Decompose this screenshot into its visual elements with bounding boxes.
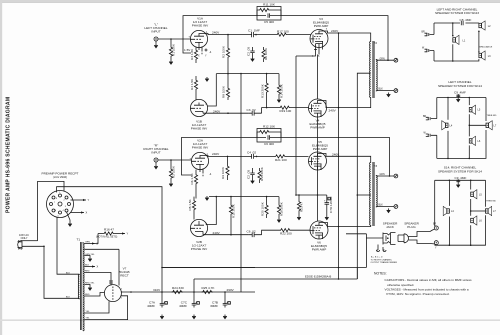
wire plug to terminal BR bbox=[412, 229, 434, 236]
svg-text:R10 200K: R10 200K bbox=[232, 203, 236, 218]
resistor R14 200K bbox=[277, 74, 283, 98]
svg-text:BLK: BLK bbox=[379, 205, 384, 207]
cap C2b .05 to ground bbox=[247, 168, 255, 179]
svg-text:GRN: GRN bbox=[380, 58, 385, 60]
svg-text:240V: 240V bbox=[212, 31, 220, 35]
box3 input terminal bottom bbox=[434, 241, 438, 250]
speaker L3 bbox=[478, 51, 491, 60]
wire R21 to V5 grid bbox=[286, 155, 309, 157]
svg-text:RED: RED bbox=[85, 294, 90, 296]
svg-text:A + B C + D: A + B C + D bbox=[371, 256, 383, 259]
bottom interconnect wires bbox=[162, 268, 357, 280]
node on V4 grid wire bbox=[266, 107, 268, 109]
svg-text:SPEAKER SYSTEM FOR SK14: SPEAKER SYSTEM FOR SK14 bbox=[438, 84, 482, 88]
notes text block bbox=[385, 278, 473, 296]
resistor R5 1.5K above V2B bbox=[188, 197, 196, 220]
V2A heater pins bbox=[200, 169, 212, 176]
svg-text:otherwise specified.: otherwise specified. bbox=[387, 283, 414, 287]
wire plug to terminal Y bbox=[412, 240, 434, 244]
wire V6 plate to T3 bottom bbox=[326, 223, 371, 227]
treble text box3 bbox=[486, 201, 496, 203]
B+ rail A y267.5 bbox=[162, 267, 339, 269]
tube V1A label bbox=[192, 17, 209, 28]
svg-text:BR: BR bbox=[423, 116, 427, 118]
T2 output terminal bottom bbox=[394, 89, 398, 93]
node on V1B out bbox=[227, 112, 229, 114]
T3 center tap to B+ bbox=[357, 194, 370, 196]
tube V1A bbox=[189, 30, 209, 47]
wire terminal top to box3 bbox=[435, 225, 437, 227]
svg-text:(HOT IN ALL SETS): (HOT IN ALL SETS) bbox=[96, 235, 117, 238]
svg-text:240V: 240V bbox=[331, 29, 339, 33]
wire right input to V2A grid bbox=[158, 159, 192, 161]
svg-text:R25 4.7K: R25 4.7K bbox=[202, 286, 216, 290]
tube V3 pentode bbox=[310, 28, 328, 47]
speaker L7b bbox=[486, 206, 497, 215]
page left gray band bbox=[0, 0, 2, 335]
capacitor C4 .02 coupling bbox=[247, 150, 257, 158]
svg-text:C4 .02: C4 .02 bbox=[247, 150, 256, 154]
speaker L4b bbox=[443, 206, 454, 215]
AC plug label bbox=[19, 233, 29, 240]
speaker L1 bbox=[452, 35, 466, 45]
ground below C10 bbox=[456, 183, 460, 187]
speaker L2 bbox=[478, 21, 491, 32]
screen node on V4 plate wire bbox=[338, 107, 340, 109]
T1 ground tap 1 bbox=[85, 254, 96, 261]
wire terminal bottom to box3 bbox=[435, 244, 437, 246]
svg-text:R1 100K: R1 100K bbox=[172, 43, 176, 56]
feedback network box R12 10K C6 bbox=[257, 125, 281, 147]
plate supply vertical x292.4 bbox=[295, 56, 297, 195]
speaker plug symbol bbox=[398, 234, 412, 243]
wire V1B cathode out bbox=[203, 112, 249, 114]
wire V1A plate to node bbox=[207, 34, 250, 35]
svg-text:R15 200K: R15 200K bbox=[260, 166, 264, 181]
svg-text:R11 10K: R11 10K bbox=[263, 3, 276, 7]
right channel input label bbox=[143, 144, 168, 155]
bias rail y195 bbox=[296, 194, 327, 196]
grid resistor R9 100K bbox=[221, 156, 229, 180]
node T2 secondary/feedback bbox=[387, 59, 389, 61]
bus wire y73.6 bbox=[216, 73, 279, 75]
V7 filament return wires bbox=[85, 296, 128, 320]
ground below R23 bbox=[297, 216, 301, 220]
svg-text:VOLTAGES - Measured from point: VOLTAGES - Measured from point indicated… bbox=[385, 287, 469, 291]
bypass cap C7D 120MF bbox=[324, 195, 333, 216]
to other channel text bbox=[371, 256, 398, 265]
svg-text:PHASE INV: PHASE INV bbox=[191, 247, 208, 251]
resistor R15 200K bbox=[258, 166, 264, 183]
svg-text:EDGE 61D84298A-B: EDGE 61D84298A-B bbox=[305, 275, 331, 279]
tube V5 label bbox=[312, 140, 328, 151]
svg-text:(LUG VIEW): (LUG VIEW) bbox=[53, 176, 67, 179]
T2 output terminal top bbox=[394, 58, 398, 62]
resistor R8 100K grid V1B bbox=[222, 74, 230, 100]
svg-text:R17 100: R17 100 bbox=[277, 30, 289, 34]
svg-text:PLUG: PLUG bbox=[407, 225, 416, 229]
tube V5 pentode bbox=[309, 152, 327, 170]
svg-text:R6 1.8K: R6 1.8K bbox=[190, 172, 194, 184]
capacitor C1 .1MF coupling bbox=[248, 29, 260, 38]
svg-text:BLK: BLK bbox=[379, 89, 384, 91]
plug wire bottom prong bbox=[22, 245, 44, 247]
speaker system 2 title bbox=[438, 80, 482, 88]
node T3 secondary/feedback bbox=[389, 175, 391, 177]
svg-text:C7D 120MF: C7D 120MF bbox=[329, 196, 333, 213]
rectifier V7 label bbox=[119, 267, 129, 278]
resistor R20 100K bbox=[261, 197, 269, 218]
svg-text:C2 .05: C2 .05 bbox=[247, 170, 251, 179]
svg-text:SPEAKER SYSTEM FOR SK23: SPEAKER SYSTEM FOR SK23 bbox=[435, 11, 479, 15]
svg-text:R23 47: R23 47 bbox=[300, 202, 304, 212]
svg-text:C1 .1MF: C1 .1MF bbox=[248, 29, 260, 33]
svg-text:R22 100: R22 100 bbox=[280, 232, 292, 236]
T1 tap 2 arrow bbox=[85, 242, 99, 246]
wire x98 down from R16 bbox=[95, 234, 98, 244]
speaker box 3 wiring bbox=[435, 180, 486, 245]
speaker L6b bbox=[471, 216, 483, 225]
svg-text:40MF: 40MF bbox=[147, 304, 155, 308]
svg-text:BRILLIANCE: BRILLIANCE bbox=[480, 46, 493, 49]
tube V1B label bbox=[191, 120, 208, 131]
svg-text:INPUT: INPUT bbox=[151, 151, 160, 155]
svg-text:R4 1.5K: R4 1.5K bbox=[190, 78, 194, 90]
svg-text:240V: 240V bbox=[213, 231, 221, 235]
svg-text:R16 47: R16 47 bbox=[104, 228, 114, 232]
tube V2A label bbox=[192, 139, 209, 150]
T1 bottom taps YEL bbox=[86, 311, 91, 320]
wire R22 to V6 grid bbox=[291, 229, 310, 231]
cap C10 4MF bbox=[455, 176, 467, 183]
svg-text:40MF: 40MF bbox=[179, 304, 187, 308]
tube V2B label bbox=[191, 240, 208, 251]
svg-text:C9 .4MF: C9 .4MF bbox=[454, 90, 466, 94]
wire C3 up to grid wire bbox=[262, 108, 279, 114]
svg-text:PWR AMP: PWR AMP bbox=[313, 147, 328, 151]
resistor R22 100 bbox=[280, 229, 292, 236]
power transformer T1 bbox=[77, 238, 85, 332]
node on V2B out bbox=[230, 234, 232, 236]
ground at T2 secondary bbox=[387, 93, 391, 97]
box3 input terminal top bbox=[433, 224, 438, 230]
svg-text:TREB MD: TREB MD bbox=[487, 115, 497, 117]
plug wire top prong bbox=[22, 240, 38, 242]
speaker system 3 title bbox=[438, 166, 482, 174]
feedback wire top left channel bbox=[183, 16, 257, 53]
wire C6b up to V6 grid wire bbox=[262, 230, 280, 235]
tube V6 label bbox=[311, 241, 327, 252]
svg-text:C6 400: C6 400 bbox=[264, 142, 274, 146]
svg-text:BLK: BLK bbox=[66, 273, 71, 275]
svg-text:310V: 310V bbox=[153, 288, 161, 292]
svg-text:240V: 240V bbox=[329, 109, 337, 113]
svg-text:PHASE INV: PHASE INV bbox=[192, 146, 209, 150]
preamp power receptacle label bbox=[42, 172, 79, 179]
R16 47 resistor to Y bbox=[96, 228, 129, 239]
node at C1 output bbox=[255, 34, 257, 36]
svg-text:C3 .02: C3 .02 bbox=[247, 108, 256, 112]
svg-text:R13 200K: R13 200K bbox=[261, 83, 265, 98]
ground arrow near V2A cathode bbox=[205, 196, 209, 200]
svg-text:240V: 240V bbox=[213, 109, 221, 113]
resistor R2 100K right input bbox=[169, 160, 175, 182]
svg-text:SPEAKER SYSTEM FOR SK14: SPEAKER SYSTEM FOR SK14 bbox=[438, 169, 482, 173]
svg-text:BR: BR bbox=[422, 32, 426, 34]
node dots on y73.6 bbox=[227, 73, 267, 75]
svg-text:INPUT: INPUT bbox=[151, 30, 160, 34]
resistor R17 100 bbox=[276, 30, 289, 37]
speaker box 2 wiring bbox=[437, 98, 486, 159]
svg-text:X: X bbox=[97, 265, 99, 269]
svg-text:BLK: BLK bbox=[66, 297, 71, 299]
svg-text:BR: BR bbox=[433, 224, 437, 226]
speaker box 1 wiring bbox=[434, 23, 479, 61]
svg-text:R20 100K: R20 100K bbox=[261, 201, 265, 216]
svg-text:GRN-YEL: GRN-YEL bbox=[85, 254, 96, 256]
ground from socket bbox=[67, 212, 72, 226]
input plug P4 box2 bbox=[424, 133, 437, 137]
wire x194 up to rail B bbox=[193, 279, 195, 292]
jack ground lead bbox=[339, 234, 387, 268]
speaker L5 bbox=[469, 105, 481, 114]
svg-text:Y: Y bbox=[127, 232, 129, 236]
wire C1 to R17 bbox=[256, 34, 276, 36]
filter cap C7A 40MF bbox=[147, 292, 167, 319]
node junction at R1 top bbox=[170, 38, 172, 40]
output transformer T2 bbox=[370, 41, 378, 98]
socket wire to top left bbox=[38, 181, 64, 240]
speaker system 1 title bbox=[435, 7, 479, 15]
svg-text:C5 400: C5 400 bbox=[264, 20, 274, 24]
svg-text:RED-YEL: RED-YEL bbox=[85, 283, 95, 285]
svg-text:PHASE INV: PHASE INV bbox=[192, 24, 209, 28]
wire node to L7 bbox=[469, 124, 486, 126]
socket wire to B plus rail bbox=[57, 187, 162, 268]
svg-text:JACK: JACK bbox=[386, 225, 395, 229]
wire V5 plate to T3 top bbox=[325, 154, 371, 163]
wire node to L7b bbox=[471, 210, 486, 212]
svg-text:RED: RED bbox=[85, 271, 90, 273]
right input jack J2 bbox=[154, 158, 158, 165]
ground below C7D bbox=[325, 216, 329, 220]
speaker jack label bbox=[383, 222, 398, 229]
cap C2 .05 to ground bbox=[247, 47, 255, 57]
svg-text:POWER AMP HS-696 SCHEMATIC DIA: POWER AMP HS-696 SCHEMATIC DIAGRAM bbox=[6, 97, 12, 213]
svg-text:R16 200K: R16 200K bbox=[280, 201, 284, 216]
T3 secondary top lead bbox=[376, 175, 394, 177]
rectifier tube V7 bbox=[104, 280, 122, 302]
screen node on V5 plate wire bbox=[338, 156, 340, 158]
T1 tap X arrow bbox=[85, 265, 99, 269]
ground below C2 bbox=[251, 57, 255, 61]
svg-text:TO RIGHT CHANNEL: TO RIGHT CHANNEL bbox=[371, 259, 393, 262]
preamp power receptacle socket bbox=[47, 191, 74, 218]
speaker L6 bbox=[469, 136, 481, 145]
tube V4 label bbox=[310, 119, 326, 130]
svg-text:290V: 290V bbox=[227, 288, 235, 292]
node at C4 output bbox=[256, 156, 258, 158]
svg-text:R3 1.8K: R3 1.8K bbox=[190, 48, 194, 60]
node B+ x225 bbox=[224, 291, 226, 293]
T1 primary labels bbox=[66, 273, 71, 299]
svg-text:R21 100: R21 100 bbox=[275, 158, 287, 162]
tube V6 pentode bbox=[310, 221, 328, 239]
grid resistor R2 100K bbox=[222, 35, 230, 74]
svg-text:R2 100K: R2 100K bbox=[222, 45, 226, 58]
input plug P3 box2 bbox=[423, 116, 437, 120]
input plug P2 box1 bbox=[422, 48, 434, 52]
svg-text:C9 .4MF: C9 .4MF bbox=[455, 176, 467, 180]
node dots box3 bbox=[449, 180, 472, 247]
wire x44 down to T1 bbox=[44, 246, 79, 298]
svg-text:R19 100: R19 100 bbox=[280, 109, 292, 113]
page bottom gray divider line bbox=[0, 319, 500, 321]
feedback wire to T2 secondary bbox=[281, 16, 388, 61]
wire C4 to R21 bbox=[257, 155, 275, 157]
node x241 top bbox=[240, 73, 242, 75]
resistor R25 4.7K bbox=[202, 286, 216, 293]
feedback network box R11 10K C5 400 bbox=[257, 3, 281, 25]
wire R19 to V4 grid bbox=[291, 107, 309, 109]
node dots on y196.6 bbox=[230, 196, 267, 198]
T1 tap to V7 heater bbox=[85, 249, 120, 285]
tube V2A bbox=[190, 152, 209, 169]
AC plug bbox=[18, 240, 23, 250]
svg-text:Y: Y bbox=[88, 198, 90, 202]
node dots box1 bbox=[452, 22, 454, 62]
resistor R10 200K bbox=[229, 197, 235, 235]
wire V2B plate up to bus bbox=[199, 197, 216, 225]
bus wire y196.6 bbox=[209, 196, 279, 198]
ground below R1 bbox=[169, 60, 173, 64]
node B+ x162 bbox=[161, 291, 163, 293]
plate supply vertical x241 bbox=[240, 74, 242, 292]
T3 secondary bottom lead bbox=[376, 206, 394, 208]
svg-text:R9 100K: R9 100K bbox=[221, 166, 225, 179]
feedback wire to T3 secondary bbox=[281, 138, 390, 177]
ground below C9 bbox=[456, 98, 460, 102]
svg-text:T1: T1 bbox=[77, 238, 81, 242]
svg-text:TREB MD: TREB MD bbox=[486, 201, 496, 203]
V1A heater pins bbox=[198, 47, 212, 58]
B+ rail B y279 bbox=[194, 278, 357, 280]
resistor R4 1.5K above V1B bbox=[190, 76, 198, 100]
V7 cathode output wire bbox=[121, 290, 255, 293]
svg-text:R6 100K: R6 100K bbox=[264, 47, 268, 60]
svg-text:OUTPUT TRANSFORMER: OUTPUT TRANSFORMER bbox=[371, 261, 398, 264]
cathode resistor R23 47 bbox=[297, 194, 303, 215]
ground at left input jack bbox=[154, 44, 158, 48]
wire x162 up to rail A bbox=[161, 268, 163, 293]
node at V7 output bbox=[130, 291, 132, 293]
node at x44 bbox=[43, 246, 45, 248]
resistor R19 100 bbox=[279, 106, 291, 113]
ground arrow near V1B top bbox=[205, 77, 209, 81]
wire V2B cathode out bbox=[203, 234, 249, 236]
node junction at R9 top bbox=[227, 156, 229, 158]
ground at right input jack bbox=[154, 165, 158, 169]
svg-text:PWR AMP: PWR AMP bbox=[312, 248, 327, 252]
resistor R16 200K bbox=[277, 197, 283, 218]
speaker L4 bbox=[442, 121, 453, 130]
svg-text:RECT: RECT bbox=[120, 274, 129, 278]
resistor R1 100K bbox=[169, 39, 175, 60]
screen supply vertical x338.5 bbox=[338, 33, 340, 279]
ground below R14 bbox=[277, 98, 281, 102]
cap C8 4MF bbox=[460, 18, 472, 25]
cap C9 4MF bbox=[454, 90, 466, 97]
page top gray band bbox=[0, 0, 500, 3]
resistor R24 330 bbox=[172, 286, 184, 293]
svg-text:GRN: GRN bbox=[380, 174, 385, 176]
arrow to Y from socket bbox=[71, 198, 90, 202]
treble text box2 bbox=[487, 115, 497, 117]
svg-text:VTVM, 110V. No signal in. P: VTVM, 110V. No signal in. Preamp connect… bbox=[386, 292, 450, 296]
wire R17 to V3 grid bbox=[288, 34, 311, 36]
svg-text:30MF: 30MF bbox=[210, 304, 218, 308]
T2 secondary top lead bbox=[376, 59, 394, 61]
output transformer T3 bbox=[370, 162, 378, 226]
filter cap C7B 30MF bbox=[210, 292, 230, 319]
node dots box2 bbox=[447, 97, 470, 160]
svg-text:R24 330: R24 330 bbox=[172, 286, 184, 290]
T3 output terminal bottom bbox=[394, 205, 398, 209]
svg-text:NOTES:: NOTES: bbox=[374, 272, 387, 276]
svg-text:1.5V: 1.5V bbox=[184, 48, 191, 52]
T2 center tap to B+ bbox=[357, 73, 370, 279]
ground at T3 secondary bbox=[387, 208, 391, 212]
node rail A x162 bbox=[161, 267, 163, 269]
V2A cathode resistor R6 1.8K bbox=[190, 170, 198, 199]
wire B+ end up x241 bbox=[240, 291, 242, 293]
capacitor C6b .02 bbox=[247, 229, 262, 237]
T3 output terminal top bbox=[394, 174, 398, 178]
T1 tap RED low to V7 plate 2 bbox=[85, 293, 105, 297]
tube V2B bbox=[190, 219, 207, 236]
V1A cathode network R3 1.8K bbox=[184, 48, 198, 63]
speaker L7 bbox=[486, 121, 497, 130]
tube V3 label bbox=[313, 17, 329, 28]
filter cap C7C 40MF bbox=[179, 292, 199, 319]
ground below C2b bbox=[251, 179, 255, 183]
svg-text:CAPACITORS - Decimal values in: CAPACITORS - Decimal values in MF, all o… bbox=[385, 278, 473, 282]
svg-text:PHASE INV: PHASE INV bbox=[191, 127, 208, 131]
resistor R6 100K beside C2 bbox=[262, 47, 268, 62]
ground below R16 bbox=[277, 218, 281, 222]
node junction at R2 top bbox=[227, 34, 229, 36]
svg-text:BLK: BLK bbox=[85, 265, 90, 267]
svg-text:R14 200K: R14 200K bbox=[280, 83, 284, 98]
feedback wire right channel bbox=[182, 138, 258, 176]
wire V3 cathode to bias rail bbox=[296, 54, 316, 57]
svg-text:GRN: GRN bbox=[85, 242, 90, 244]
speaker jack symbol bbox=[383, 233, 396, 245]
wire V3 plate to T2 top bbox=[326, 31, 371, 41]
speaker L5b bbox=[471, 190, 483, 199]
node rail B x338.5 bbox=[338, 278, 340, 280]
resistor R13 200K bbox=[261, 74, 269, 108]
input plug P1 box1 bbox=[422, 32, 435, 36]
capacitor C3 .02 bbox=[247, 108, 262, 116]
svg-text:240V: 240V bbox=[212, 152, 220, 156]
resistor R21 100 bbox=[275, 155, 287, 162]
tube V1B bbox=[190, 99, 207, 116]
node T3 center tap bbox=[357, 194, 359, 196]
T1 tap RED to V7 plate bbox=[85, 271, 112, 280]
screen node on V3 plate wire bbox=[338, 32, 340, 34]
node B+ x194 bbox=[193, 291, 195, 293]
